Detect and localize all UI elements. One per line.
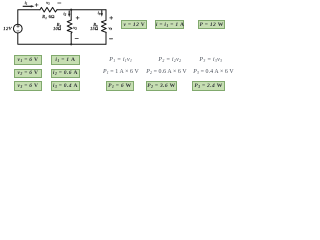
svg-text:i2: i2 (63, 11, 66, 17)
node top junction (70, 9, 72, 11)
result box v3 = 6 V (14, 81, 42, 91)
source plus sign (17, 25, 20, 28)
equation P1 = 1 A x 6 V (103, 69, 139, 75)
svg-text:i1: i1 (25, 0, 28, 6)
resistor R3 (101, 20, 106, 33)
svg-text:v1: v1 (46, 0, 50, 6)
wire top from R1 to right corner (57, 9, 106, 11)
circuit schematic (0, 0, 240, 95)
result box i1 = 1 A (51, 55, 79, 65)
result box P1 = 6 W (106, 81, 134, 91)
svg-text:v3: v3 (109, 25, 113, 31)
svg-text:15Ω: 15Ω (90, 26, 99, 31)
v2 plus sign (76, 16, 79, 19)
current arrow i3 (101, 11, 103, 17)
resistor R2 (67, 20, 72, 33)
svg-text:v2: v2 (73, 25, 77, 31)
source minus sign (17, 30, 19, 32)
wire middle branch lower (70, 33, 72, 44)
v1 plus sign (35, 3, 38, 6)
resistor R1 (40, 7, 57, 12)
current arrow i2 (68, 11, 70, 17)
equation P2 = i2 v2 (158, 57, 181, 63)
wire right branch lower (105, 33, 107, 44)
result box P2 = 3.6 W (146, 81, 178, 91)
equation P3 = 0.4 A x 6 V (193, 69, 233, 75)
result box i3 = 0.4 A (51, 81, 79, 91)
svg-text:R1 6Ω: R1 6Ω (41, 14, 55, 20)
result box v1 = 6 V (14, 55, 42, 65)
current arrow i1 (23, 5, 34, 7)
v3 minus sign (109, 38, 112, 40)
voltage source 12V (13, 24, 22, 33)
svg-text:i3: i3 (98, 10, 101, 16)
result box v2 = 6 V (14, 69, 42, 78)
result box P3 = 2.4 W (192, 81, 224, 91)
equation P2 = 0.6 A x 6 V (146, 69, 186, 75)
svg-text:12V: 12V (3, 26, 12, 31)
svg-text:10Ω: 10Ω (53, 26, 62, 31)
equation P3 = i3 v3 (199, 57, 222, 63)
wire bottom (18, 33, 106, 44)
equation P1 = i1 v1 (109, 57, 132, 63)
wire middle branch upper (70, 10, 72, 20)
wire right branch upper (105, 10, 107, 21)
v1 minus sign (58, 2, 61, 4)
v2 minus sign (75, 38, 78, 40)
result box P = 12 W (198, 20, 226, 29)
node bottom junction (70, 43, 72, 45)
result box i = i1 = 1 A (155, 20, 184, 29)
result box v = 12 V (121, 20, 147, 29)
wire left and top from source to R1 (18, 10, 40, 25)
v3 plus sign (110, 16, 113, 19)
result box i2 = 0.6 A (51, 69, 79, 78)
